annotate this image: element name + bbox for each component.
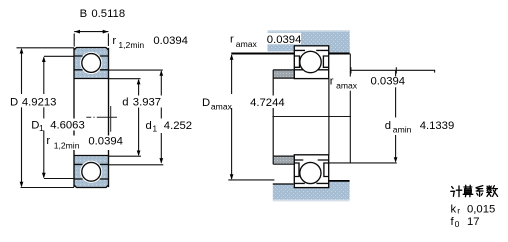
- svg-text:4.7244: 4.7244: [250, 97, 285, 109]
- svg-text:4.252: 4.252: [164, 120, 192, 132]
- svg-text:17: 17: [467, 216, 480, 228]
- svg-text:1: 1: [39, 123, 44, 133]
- svg-text:B: B: [80, 8, 88, 20]
- svg-text:0.0394: 0.0394: [371, 76, 406, 88]
- svg-text:D: D: [202, 97, 210, 109]
- svg-text:1,2min: 1,2min: [118, 40, 144, 50]
- svg-text:1: 1: [152, 123, 157, 133]
- svg-text:0.0394: 0.0394: [88, 136, 123, 148]
- svg-text:amin: amin: [393, 125, 412, 135]
- svg-text:r: r: [457, 206, 460, 216]
- svg-text:D: D: [10, 97, 18, 109]
- svg-text:4.9213: 4.9213: [22, 97, 57, 109]
- svg-text:r: r: [112, 35, 116, 47]
- svg-text:1,2min: 1,2min: [54, 140, 80, 150]
- svg-text:0: 0: [455, 219, 460, 229]
- svg-text:0,015: 0,015: [467, 204, 495, 216]
- svg-text:4.1339: 4.1339: [420, 120, 455, 132]
- svg-text:k: k: [451, 204, 457, 216]
- svg-text:3.937: 3.937: [133, 97, 161, 109]
- svg-text:d: d: [385, 120, 391, 132]
- svg-text:amax: amax: [336, 81, 358, 91]
- svg-text:0.0394: 0.0394: [153, 35, 188, 47]
- svg-text:0.5118: 0.5118: [91, 8, 125, 20]
- svg-text:r: r: [230, 34, 234, 46]
- svg-text:amax: amax: [211, 101, 233, 111]
- svg-text:4.6063: 4.6063: [50, 120, 85, 132]
- svg-text:0.0394: 0.0394: [267, 34, 302, 46]
- svg-text:amax: amax: [236, 39, 258, 49]
- svg-text:d: d: [122, 97, 128, 109]
- svg-text:r: r: [330, 75, 334, 87]
- svg-text:r: r: [46, 135, 50, 147]
- svg-text:d: d: [146, 120, 152, 132]
